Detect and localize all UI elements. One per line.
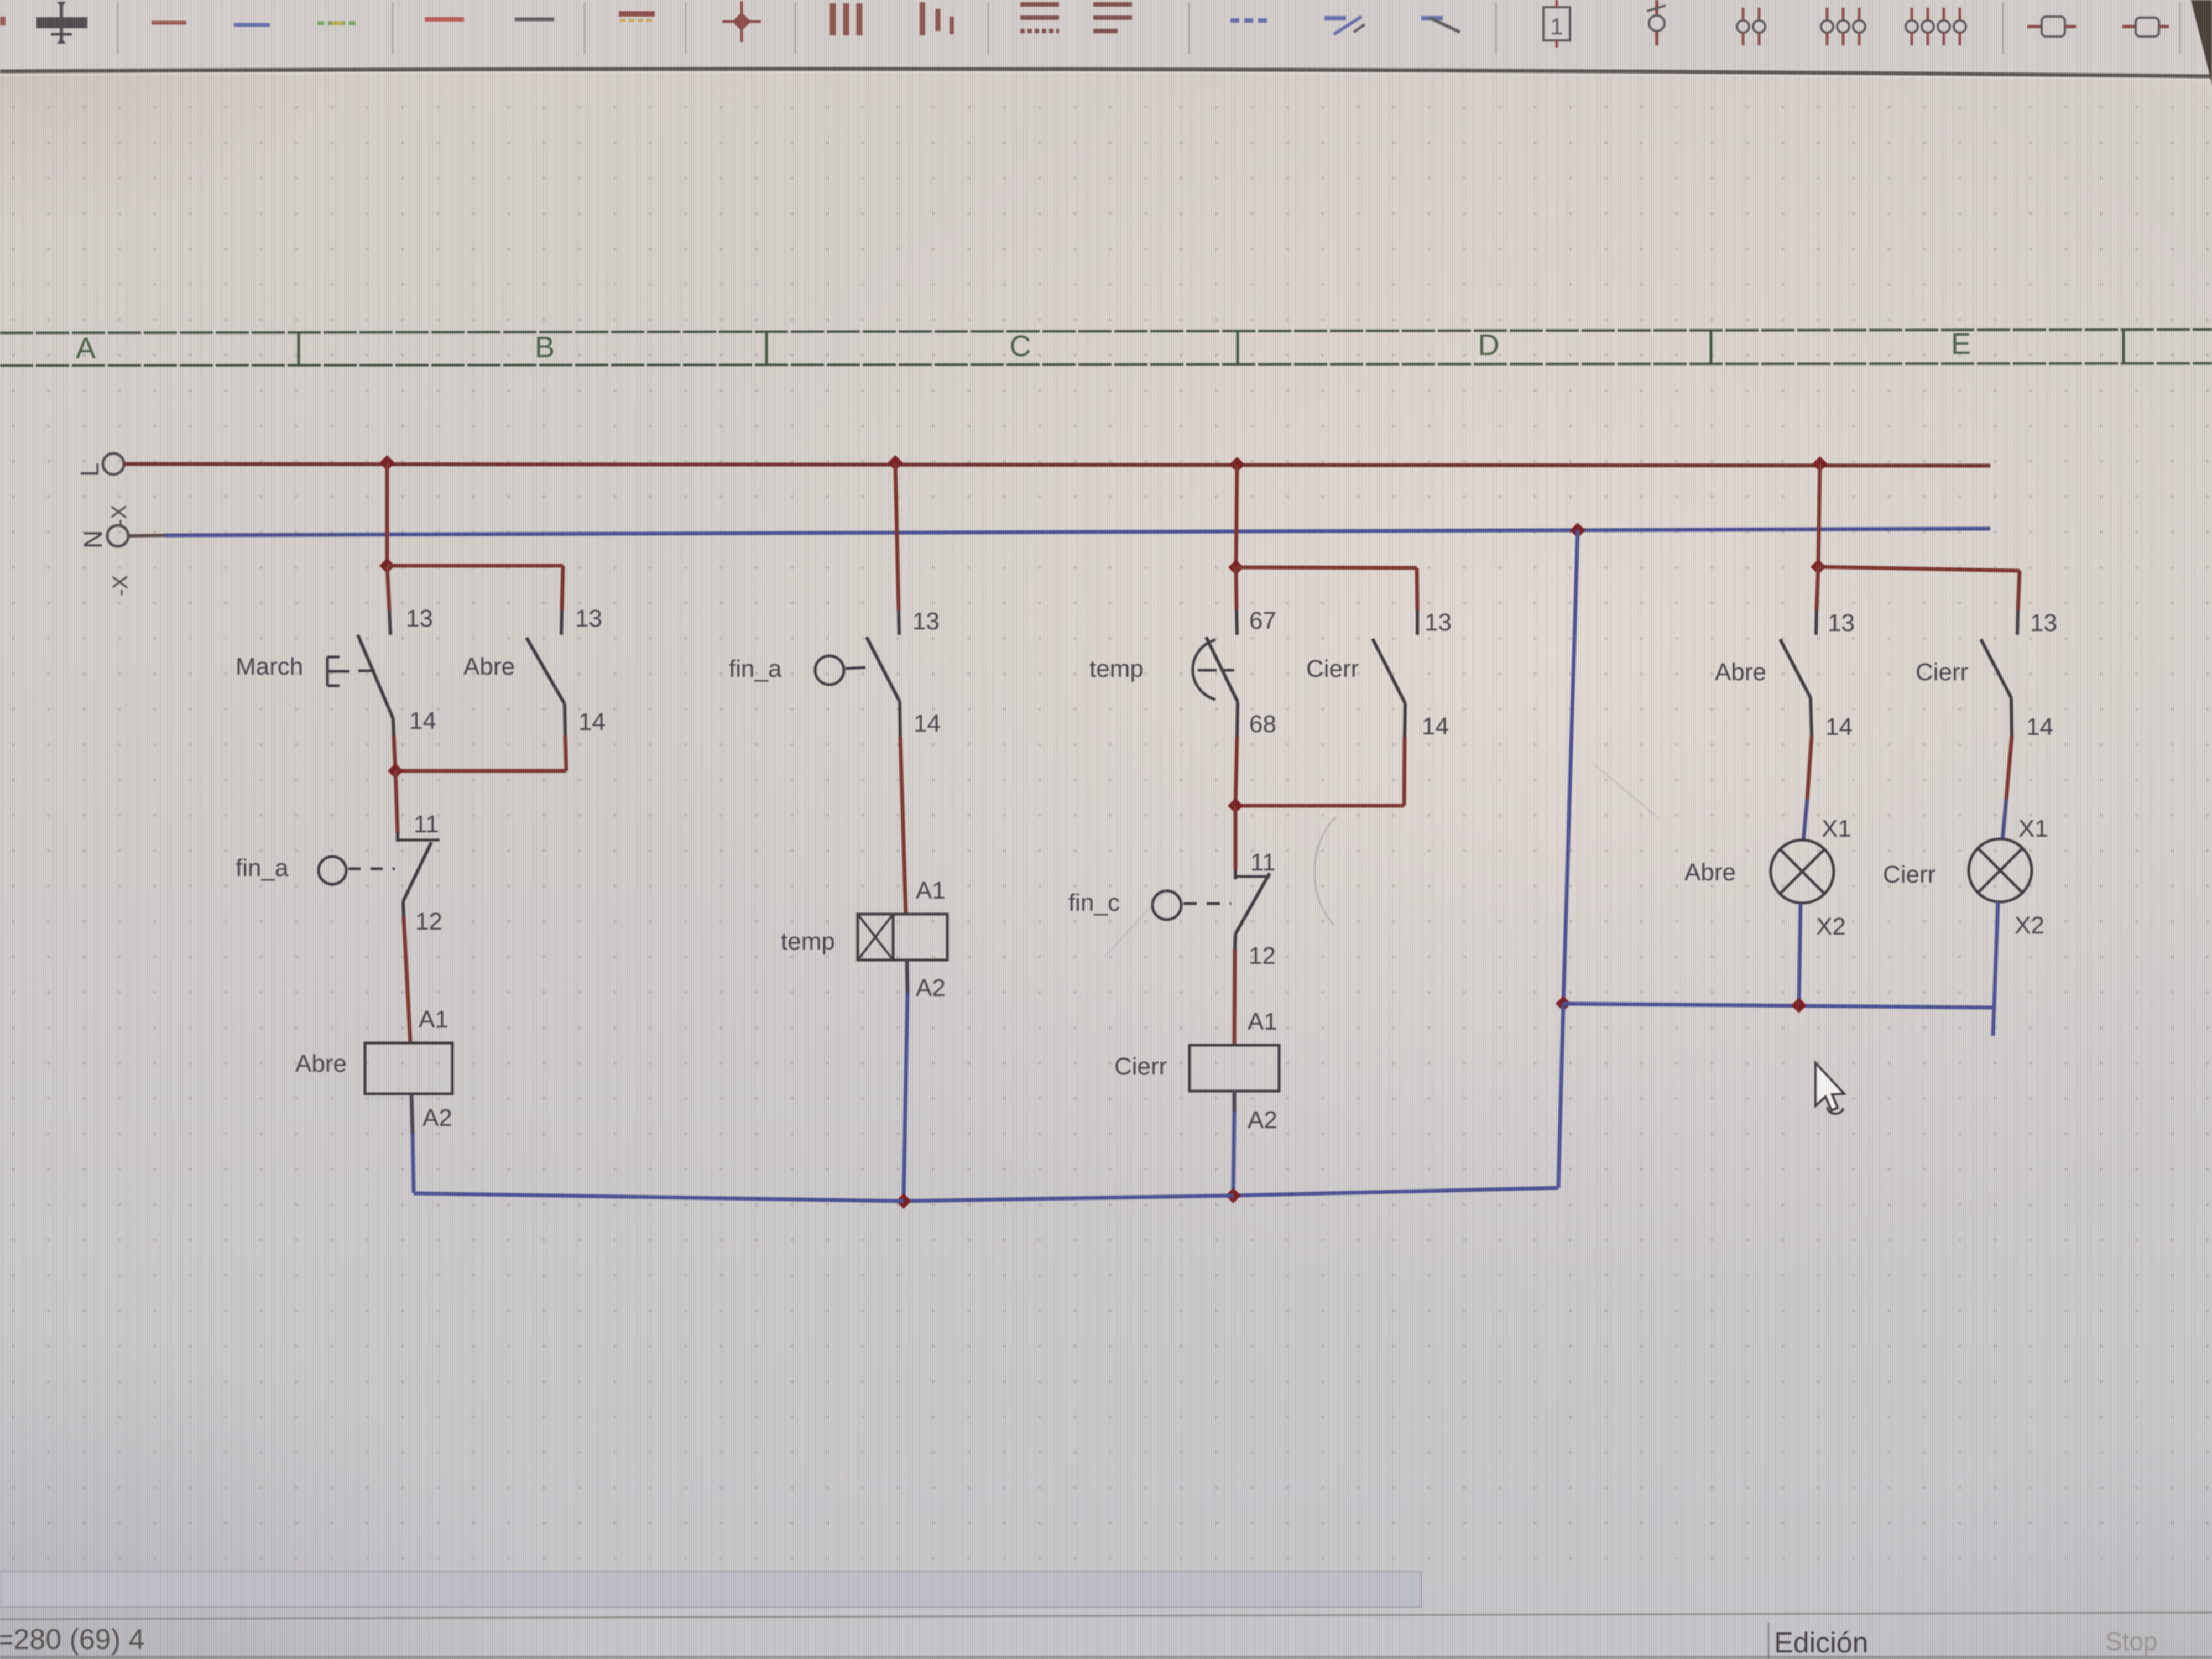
contact March NO with pushbutton actuator [389,610,390,635]
svg-text:13: 13 [575,605,602,632]
toolbar separator 2 [392,2,394,54]
svg-text:C: C [1010,330,1031,363]
wire Abre contact to lamp blue [1803,799,1807,841]
toolbar icon: blue dash diagonal 1 [1324,16,1346,20]
svg-text:14: 14 [409,707,436,734]
svg-text:13: 13 [406,605,433,632]
wire branch1 to fin_a NC [395,771,398,833]
svg-text:D: D [1478,328,1500,362]
wire below coil Abre dark [411,1094,413,1134]
wire bottom return segment left [414,1193,904,1201]
contact Abre NO (seal-in) [561,610,562,635]
node bottom return junction Cierr coil [1225,1188,1241,1203]
wire L rail (red) [124,464,1990,466]
node lamps jog junction [1811,559,1826,575]
wire N feed vertical [1563,530,1578,1004]
svg-text:Abre: Abre [463,653,515,680]
link fin_a branch2 [846,667,865,669]
wire Abre seal-in down [565,735,566,771]
svg-text:Cierr: Cierr [1306,655,1359,682]
svg-text:A2: A2 [916,974,946,1001]
svg-text:Cierr: Cierr [1883,861,1936,888]
header column divider 3 [1237,332,1238,364]
screen bottom edge shadow [0,1656,2212,1659]
screen smudge arc [1314,817,1336,925]
wire fin_a to coil Abre [404,916,410,1043]
node L-rail junction lamps [1812,456,1828,472]
status bar top border [0,1613,2212,1619]
svg-text:12: 12 [1249,942,1276,969]
toolbar separator 9 [2002,2,2004,54]
dashed link fin_c [1183,902,1231,905]
svg-text:14: 14 [1825,713,1853,740]
toolbar icon: boxed 1 [1543,7,1570,40]
node branch3 jog junction [1228,560,1244,575]
toolbar background [0,0,2212,70]
contact temp NO timed [1237,610,1237,635]
wire Cierr seal-in horizontal [1235,804,1404,808]
svg-text:temp: temp [781,928,835,955]
svg-text:14: 14 [578,708,606,735]
svg-text:67: 67 [1249,607,1276,634]
wire branch3 main short [1236,567,1237,610]
wire seal-in return horizontal [395,769,566,773]
wire Abre contact to lamp red [1807,736,1812,799]
screen bezel top-right corner [2191,0,2212,86]
header column divider 1 [298,333,299,365]
screen smudge line [1105,890,1166,957]
node L-rail junction branch3 [1229,457,1245,472]
terminal -X pin L [103,453,124,474]
svg-text:A: A [76,332,96,365]
header column divider 2 [766,332,767,364]
wire Cierr contact to lamp red [2006,736,2012,799]
svg-text:X2: X2 [2015,912,2044,939]
wire branch3 to fin_c [1234,806,1238,870]
wire Abre lamp down [1799,903,1801,1004]
toolbar icon: single pole contact [1655,0,1658,14]
lamp Cierr [1969,839,2032,902]
header column divider 5 [2123,330,2124,363]
svg-text:A2: A2 [422,1104,452,1131]
svg-text:N: N [79,530,107,549]
svg-text:14: 14 [2026,713,2053,740]
toolbar separator 3 [584,2,586,54]
svg-text:March: March [236,653,303,680]
node L-rail junction branch1 [379,455,395,471]
toolbar icon: red wire line [152,21,186,25]
svg-text:-X: -X [109,575,132,596]
toolbar icon: blue dash diagonal 2 [1421,16,1443,20]
svg-text:fin_a: fin_a [729,655,782,682]
svg-text:Abre: Abre [1684,859,1736,886]
svg-text:Edición: Edición [1774,1627,1869,1659]
toolbar bottom edge light [0,72,2212,80]
node branch1 top jog junction [379,558,395,573]
node N-rail junction [1570,523,1585,538]
svg-text:Cierr: Cierr [1114,1053,1167,1080]
svg-text:A2: A2 [1248,1107,1277,1134]
contact Abre NO (lamp branch) [1816,610,1817,635]
toolbar wash overlay [0,0,2212,67]
svg-text:14: 14 [914,710,941,737]
toolbar icon: select/pan tool (active) [36,2,87,44]
svg-text:68: 68 [1249,711,1276,738]
toolbar icon: three vertical bars [830,3,836,35]
toolbar icon: two pole contact [1742,8,1745,21]
toolbar separator 5 [795,2,796,54]
wire Cierr seal-in down [1404,737,1405,806]
wire below temp coil blue [904,993,907,1201]
wire below coil Cierr dark [1233,1091,1237,1112]
wire branch1 jog horizontal [387,564,563,568]
toolbar separator 8 [1495,2,1497,54]
wire branch2 drop [895,463,899,610]
wire temp contact down [1235,737,1237,805]
wire bottom return segment middle [904,1196,1233,1201]
svg-text:L: L [75,462,104,477]
svg-text:Cierr: Cierr [1916,659,1968,686]
toolbar separator 7 [1188,2,1190,54]
svg-text:X1: X1 [2018,815,2048,842]
svg-text:fin_a: fin_a [236,854,289,881]
toolbar separator 10 [2179,2,2181,54]
wire branch3 jog down [1417,568,1417,610]
contact fin_a NC with limit actuator [396,832,399,842]
node lamp return junction left [1556,996,1571,1011]
wire Cierr lamp down crossing return [1993,902,1998,1036]
svg-text:13: 13 [912,608,940,635]
node branch1 seal-in junction [388,763,403,779]
toolbar icon: red line bright [425,17,464,22]
screen smudge line 2 [1593,763,1659,818]
coil Cierr [1190,1045,1279,1091]
svg-text:13: 13 [2030,609,2057,637]
wire lamp return horizontal [1563,1004,1993,1008]
wire bottom return segment right [1233,1188,1558,1196]
lamp Abre [1771,840,1834,903]
toolbar separator 4 [685,2,687,54]
wire below coil Abre blue [413,1134,414,1193]
wire N rail (blue) [165,529,1990,535]
contact Cierr NO seal-in [1416,610,1419,635]
wire branch1 jog down to Abre contact [562,566,563,610]
svg-text:A1: A1 [1248,1008,1277,1035]
toolbar icon: stacked lines A [1020,2,1059,7]
timer coil temp with X box [858,914,947,960]
toolbar icon: descending bars [920,2,925,35]
toolbar icon: coil 2 [2122,25,2136,28]
toolbar icon: dark red bar with yellow dashes [619,11,655,17]
svg-text:X1: X1 [1822,815,1851,842]
mouse cursor arrow [1815,1063,1844,1110]
wire fin_c to coil Cierr [1234,949,1235,1045]
contact fin_a NO with pushbutton circle [899,610,899,635]
wire N rail lead [128,535,166,536]
contact Cierr NO (lamp branch) [2017,610,2018,635]
wire March contact to junction [394,735,395,771]
toolbar separator 6 [988,2,989,54]
wire Cierr lamp jog down [2018,571,2020,610]
wire branch1 drop from L rail [385,463,389,566]
wire branch1 main to March contact [387,566,389,610]
wire branch3 drop [1236,465,1237,567]
toolbar icon: black line [515,19,554,20]
node bottom return junction temp coil [896,1193,911,1209]
header row top border [0,330,2212,333]
wire below coil Cierr blue [1233,1112,1234,1195]
toolbar icon: blue dashes [1230,18,1267,23]
terminal -X pin N [107,525,128,546]
actuator circle fin_c [1152,891,1181,920]
wire N feed vertical lower [1558,1004,1563,1188]
svg-text:Abre: Abre [1715,659,1766,686]
actuator circle fin_a [319,857,346,884]
toolbar bottom edge [0,69,2212,76]
svg-text:13: 13 [1425,609,1452,636]
header column divider 4 [1710,331,1712,363]
svg-text:fin_c: fin_c [1068,889,1120,916]
svg-text:13: 13 [1828,609,1855,637]
toolbar separator 1 [117,2,119,54]
wire branch3 jog horizontal [1236,567,1417,568]
toolbar icon: green dashed wire [317,22,356,25]
svg-text:-X: -X [108,505,131,526]
toolbar icon: coil 1 [2027,25,2042,28]
status separator before Edicion [1768,1623,1770,1659]
horizontal scrollbar band [0,1572,1421,1607]
contact fin_c NC with limit actuator [1234,870,1237,879]
svg-text:11: 11 [414,811,439,838]
svg-text:A1: A1 [419,1006,448,1033]
toolbar icon: stacked lines B [1093,2,1132,7]
svg-text:temp: temp [1089,655,1144,682]
svg-text:E: E [1951,327,1971,361]
wire Cierr contact to lamp blue [2002,799,2006,840]
svg-text:12: 12 [415,908,442,935]
coil Abre [365,1043,452,1094]
header row bottom border [0,363,2212,366]
svg-text:14: 14 [1422,713,1449,740]
toolbar icon: three pole contact [1826,8,1829,21]
wire below temp coil dark [907,960,907,993]
svg-text:B: B [535,331,555,364]
actuator circle fin_a branch2 [815,656,844,685]
wire branch2 to timer coil [900,737,906,914]
toolbar icon: junction diamond tool [740,1,743,42]
dashed link fin_a [348,868,395,870]
wire Abre lamp main short [1817,567,1818,610]
svg-text:11: 11 [1250,849,1276,876]
wire lamps jog horizontal [1818,567,2020,571]
node branch3 seal-in junction [1228,798,1243,813]
svg-text:A1: A1 [916,877,946,904]
actuator timer arc temp [1193,640,1215,700]
toolbar icon: four pole contact [1911,8,1913,21]
toolbar icon: blue wire line [234,23,270,27]
node lamp return junction Abre [1791,998,1807,1013]
svg-text:=280 (69) 4: =280 (69) 4 [0,1624,144,1656]
svg-text:Stop: Stop [2105,1627,2158,1656]
toolbar icon: partial red mark at left edge [0,17,6,25]
svg-text:X2: X2 [1816,913,1846,940]
wire lamps drop [1818,464,1820,567]
svg-text:Abre: Abre [295,1050,347,1077]
node L-rail junction branch2 [888,455,903,471]
